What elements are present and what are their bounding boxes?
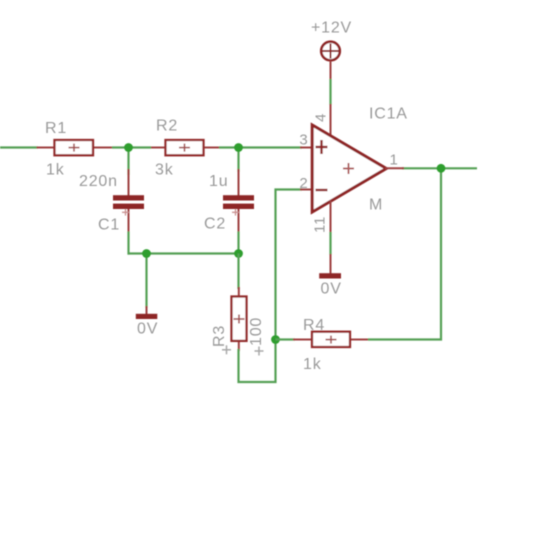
svg-text:M: M [369, 197, 383, 214]
wire R1 to node A [112, 146, 130, 148]
capacitor C1 [113, 169, 144, 233]
wire +12V net segment [329, 79, 331, 105]
svg-text:0V: 0V [137, 321, 158, 338]
svg-text:11: 11 [312, 216, 329, 233]
node E junction dot [271, 335, 280, 344]
origin cross of value 100 [255, 347, 264, 356]
op-amp output pin stub [385, 167, 404, 169]
supply +12V symbol [311, 20, 352, 61]
wire R4 to feedback riser [368, 167, 441, 339]
wire pin 11 net segment [329, 232, 331, 255]
wire input net to R1 [0, 146, 38, 148]
wire node D down to R3 [237, 254, 239, 290]
svg-text:R1: R1 [45, 120, 67, 137]
wire node B down to C2 [237, 148, 239, 173]
capacitor C2 [223, 169, 254, 233]
wire node A down to C1 [127, 148, 129, 176]
wire R2 to node B [219, 146, 240, 148]
minus mark at inverting input [316, 189, 328, 191]
svg-text:220n: 220n [79, 173, 118, 190]
wire node E to R4 [276, 338, 296, 340]
supply 0V symbol (left) [136, 306, 158, 338]
node C junction dot [142, 249, 151, 258]
svg-text:2: 2 [299, 175, 308, 192]
svg-text:0V: 0V [321, 281, 342, 298]
svg-text:100: 100 [248, 317, 265, 346]
svg-text:R2: R2 [156, 118, 178, 135]
svg-text:C1: C1 [98, 217, 120, 234]
node A junction dot [124, 143, 133, 152]
wire R3 bottom U-loop to node E [239, 340, 276, 383]
svg-text:R3: R3 [211, 325, 228, 347]
svg-text:3: 3 [299, 132, 308, 149]
op-amp pin 11 wire stub [330, 201, 332, 234]
wire node C horizontal run to node D [128, 252, 240, 254]
wire node C down to ground [145, 254, 147, 309]
op-amp pin 2 wire stub [300, 189, 313, 191]
svg-text:3k: 3k [155, 162, 174, 179]
svg-text:4: 4 [312, 113, 329, 122]
resistor R4 [293, 332, 369, 347]
svg-text:R4: R4 [303, 317, 325, 334]
op-amp pin 4 wire [330, 104, 332, 137]
plus mark at non-inverting input [316, 146, 328, 148]
svg-text:1k: 1k [46, 162, 65, 179]
svg-text:1k: 1k [303, 356, 322, 373]
node F junction dot (output/feedback) [437, 164, 446, 173]
wire +12V supply pin [330, 60, 332, 80]
origin cross of label R3 [222, 345, 231, 354]
resistor R2 [151, 140, 221, 155]
supply 0V symbol (under op-amp) [319, 254, 341, 298]
resistor R1 [37, 140, 113, 155]
wire C2 to node D [237, 232, 239, 255]
svg-text:+12V: +12V [311, 20, 352, 37]
svg-text:IC1A: IC1A [369, 106, 408, 123]
wire C1 to node C [127, 232, 129, 255]
wire node E up to op-amp pin 2 [276, 190, 303, 341]
resistor R3 [232, 287, 247, 351]
wire node B to op-amp pin 3 [239, 146, 303, 148]
op-amp U1 triangle IC1A [312, 125, 386, 212]
node B junction dot [234, 143, 243, 152]
op-amp pin 3 wire stub [300, 147, 313, 149]
wire op-amp output net [402, 167, 477, 169]
svg-text:1: 1 [390, 152, 399, 169]
node D junction dot [234, 249, 243, 258]
svg-text:1u: 1u [209, 173, 228, 190]
svg-text:C2: C2 [204, 216, 226, 233]
wire node A to R2 [129, 146, 152, 148]
center plus mark [343, 168, 354, 170]
